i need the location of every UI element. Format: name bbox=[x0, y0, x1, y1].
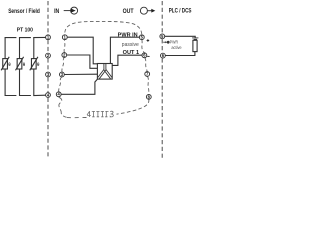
module terminal 2 bbox=[62, 52, 67, 57]
left edge T2-T1 bbox=[63, 40, 66, 53]
RTD sensor 3 (theta) bbox=[30, 38, 38, 96]
svg-text:Sensor / Field: Sensor / Field bbox=[8, 9, 40, 15]
bottom right curve T8 to dip row bbox=[117, 99, 149, 114]
module terminal 4 bbox=[56, 92, 61, 97]
RTD sensor 1 (theta) bbox=[1, 38, 9, 96]
svg-text:active: active bbox=[171, 45, 182, 50]
svg-text:PLC / DCS: PLC / DCS bbox=[169, 9, 192, 15]
field terminal circle 2 bbox=[46, 53, 51, 58]
module terminal 7 bbox=[145, 71, 150, 76]
module terminal 6 bbox=[142, 53, 147, 58]
icon IN (arrow into circle) bbox=[64, 7, 78, 14]
plus sign at T5 bbox=[147, 39, 150, 42]
wire bottom rail to terminal 4 (with crossover breaks) bbox=[5, 94, 46, 96]
wire PLC loop bottom bbox=[165, 52, 195, 56]
isolator U1 box with isolation symbol bbox=[97, 64, 112, 80]
left edge T4-T3 bbox=[59, 77, 62, 92]
icon OUT (arrow out of circle) bbox=[140, 7, 151, 14]
wire PLC loop top bbox=[165, 36, 196, 38]
field terminal circle 1 bbox=[46, 35, 51, 40]
minus sign at T6 bbox=[147, 55, 149, 57]
svg-text:IN: IN bbox=[54, 9, 59, 15]
DIP switch row on module bottom edge bbox=[87, 111, 113, 117]
module terminal 1 bbox=[62, 35, 67, 40]
wire T4 to isolator box bbox=[61, 79, 98, 94]
RTD sensor 2 (theta) bbox=[16, 38, 24, 96]
svg-text:OUT: OUT bbox=[123, 9, 134, 15]
module terminal 5 bbox=[139, 35, 144, 40]
boundary circle 6 bbox=[161, 53, 166, 58]
icon PWR active (arrow into dot) bbox=[163, 41, 169, 44]
svg-text:passive: passive bbox=[122, 42, 139, 48]
wire isolator to T6 (OUT 1) bbox=[112, 55, 142, 65]
wire T2 to isolator box bbox=[67, 55, 98, 68]
separator dashed line right (OUT | PLC/DCS) bbox=[161, 1, 163, 34]
svg-text:OUT 1: OUT 1 bbox=[123, 50, 139, 56]
wire isolator to T5 (PWR IN) bbox=[110, 37, 139, 63]
svg-text:PWR: PWR bbox=[170, 40, 179, 45]
separator dashed line left (sensor/field | IN) bbox=[47, 1, 49, 35]
svg-text:PWR IN: PWR IN bbox=[118, 32, 138, 38]
left edge T3-T2 bbox=[62, 57, 64, 72]
svg-text:PT 100: PT 100 bbox=[17, 27, 33, 33]
boundary circle 5 bbox=[160, 34, 165, 39]
wire top rail to terminal 1 (with crossover breaks) bbox=[5, 36, 46, 39]
top dome bbox=[65, 21, 142, 34]
right edge T5-T6 bbox=[142, 40, 145, 53]
right edge T6-T7 bbox=[145, 58, 147, 72]
field terminal circle 3 bbox=[46, 72, 51, 77]
resistor load bbox=[193, 40, 197, 51]
right edge T7-T8 bbox=[147, 76, 148, 94]
module terminal 8 bbox=[146, 94, 151, 99]
wire T1 to isolator box bbox=[67, 37, 97, 64]
bottom left dashes bbox=[67, 117, 87, 119]
module outline dashed blob bbox=[59, 21, 149, 117]
field terminal circle 4 bbox=[46, 92, 51, 97]
module terminal 3 bbox=[60, 72, 65, 77]
battery symbol bbox=[192, 37, 198, 39]
wire T3 to isolator box bbox=[64, 73, 97, 75]
